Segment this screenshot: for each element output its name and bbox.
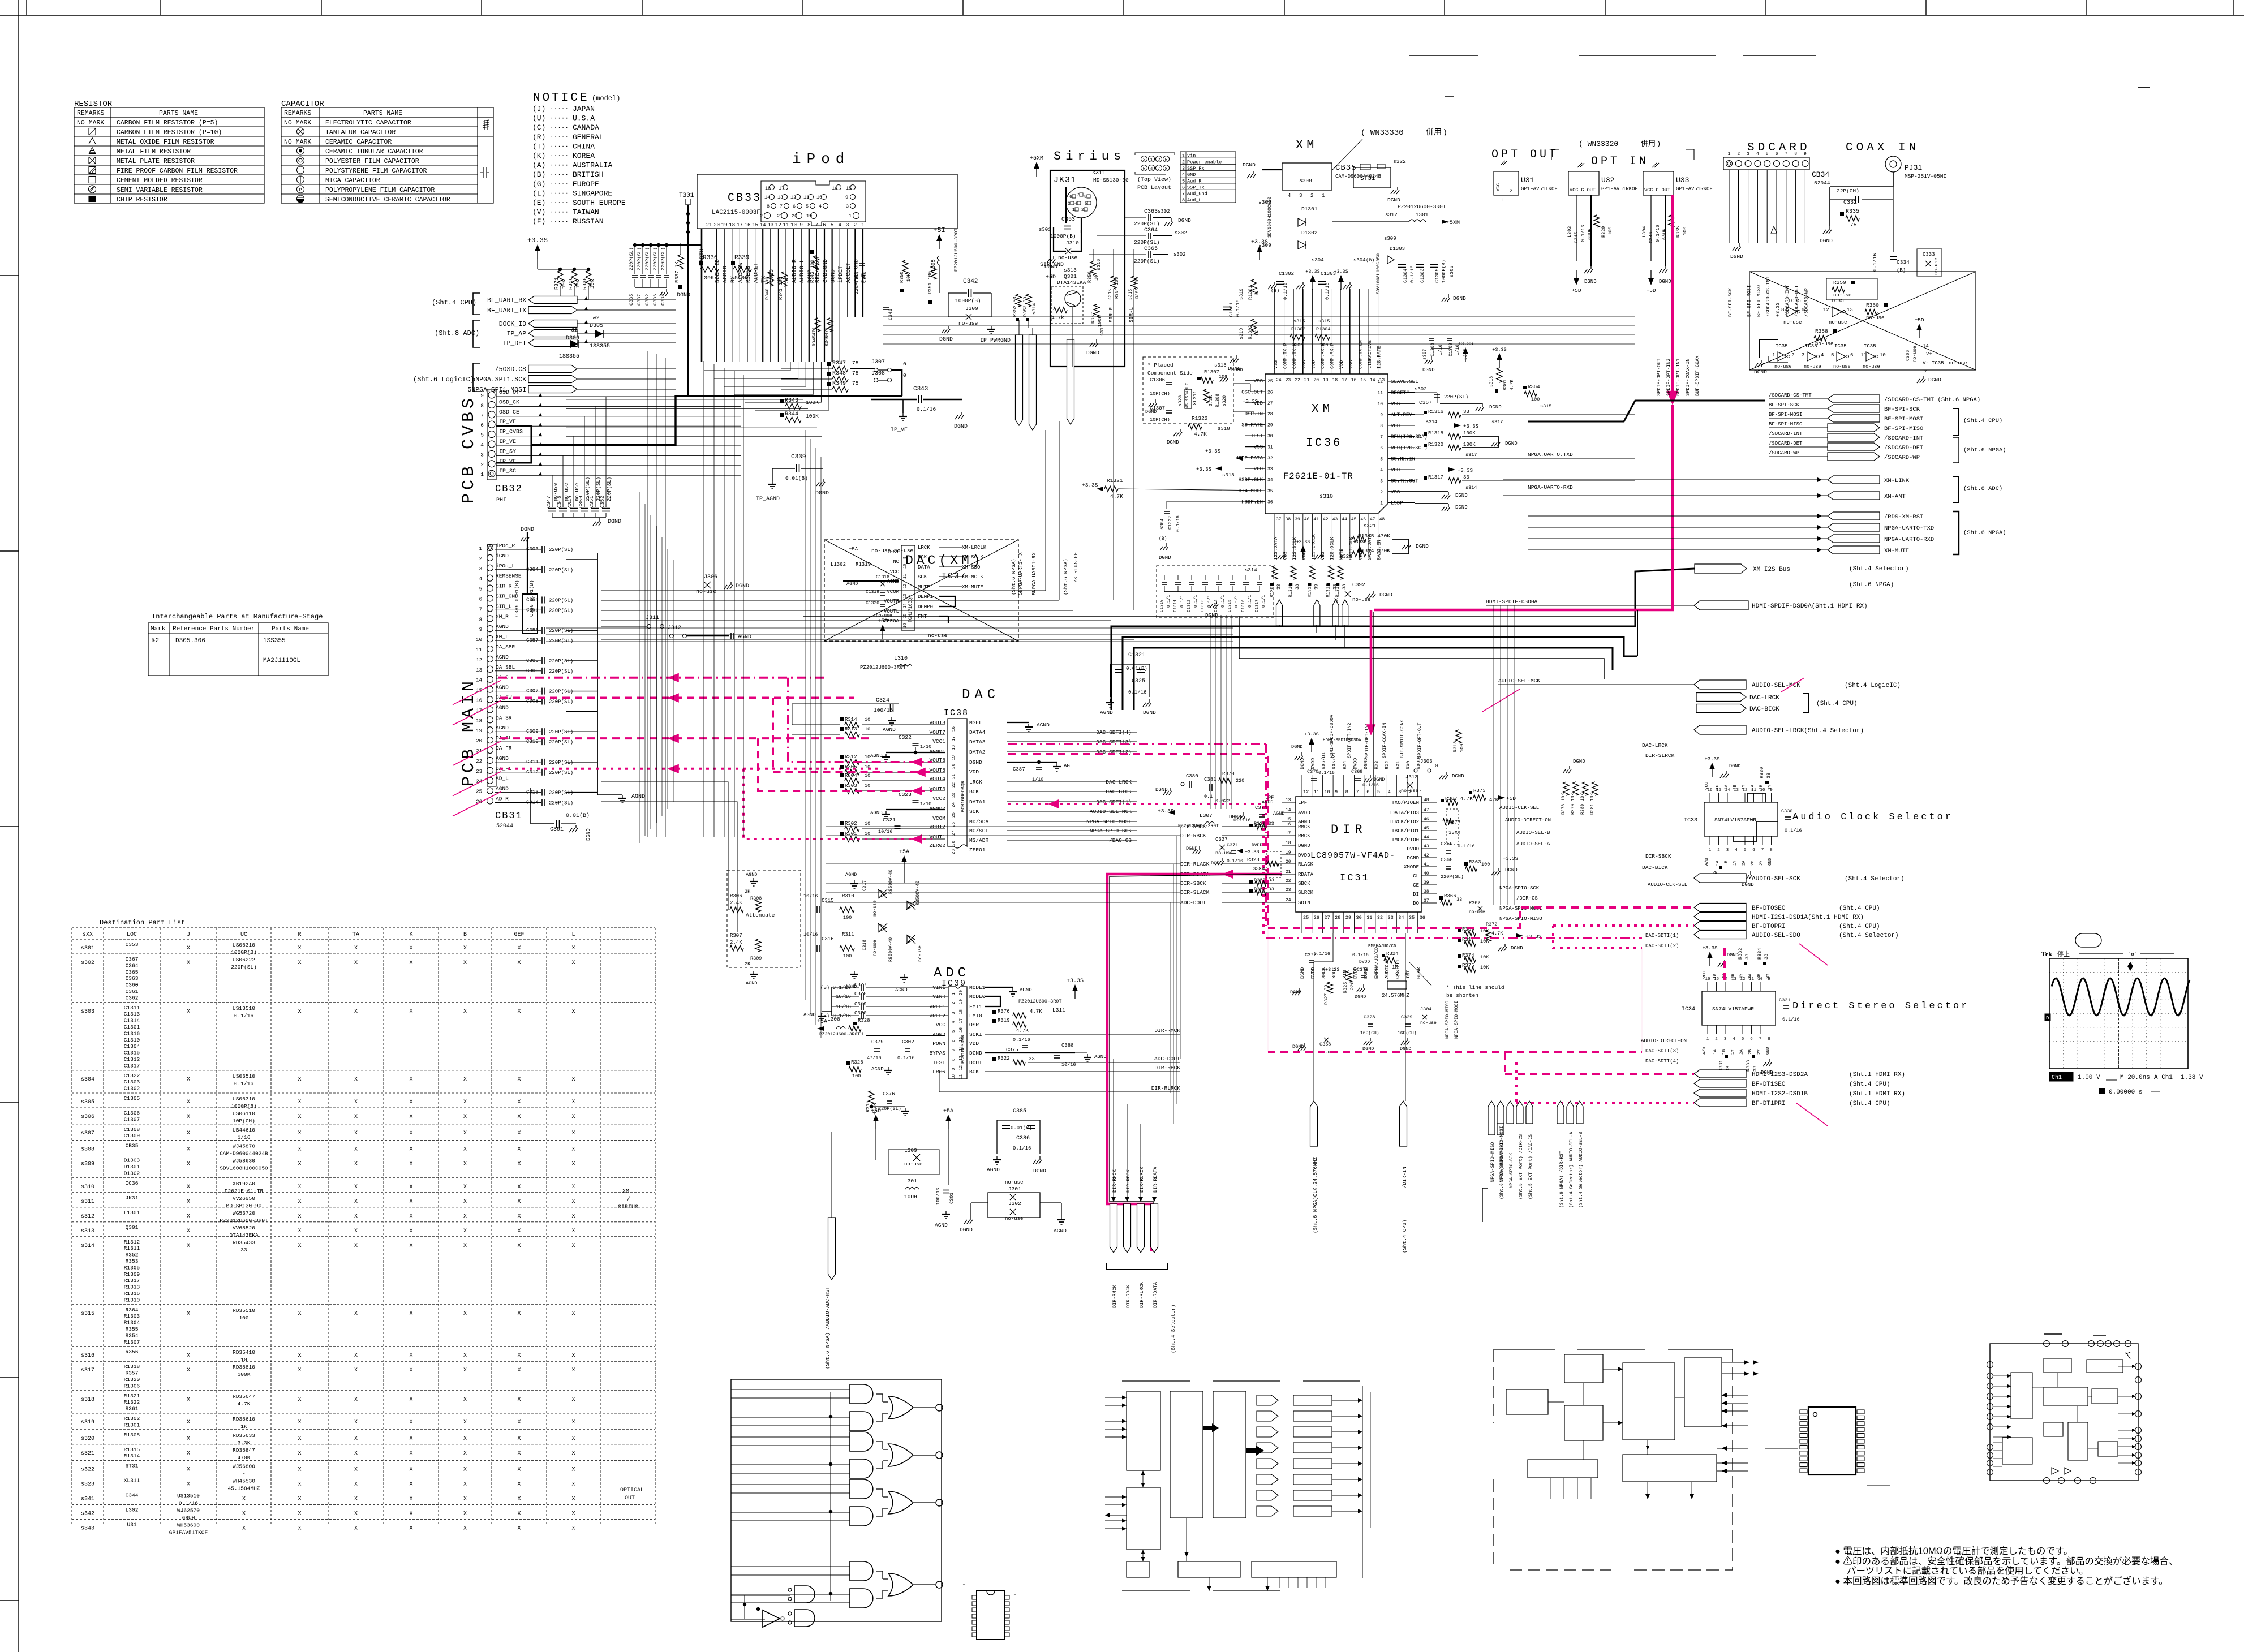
svg-text:16P(CH): 16P(CH) (1398, 1031, 1417, 1036)
svg-text:X: X (463, 1161, 467, 1168)
svg-text:X: X (463, 945, 467, 952)
highlight trace DA_SL dashed (500, 737, 869, 739)
jack PJ31 (1885, 156, 1901, 172)
svg-text:C334: C334 (1897, 259, 1910, 265)
magenta leader diagonals CB31 (453, 681, 501, 705)
svg-text:15: 15 (846, 186, 852, 191)
svg-text:(Sht.4 CPU): (Sht.4 CPU) (432, 299, 476, 307)
DEMP thick loop (939, 596, 955, 606)
svg-text:R340 100: R340 100 (764, 277, 770, 300)
svg-text:1G: 1G (1713, 973, 1718, 979)
svg-text:X: X (354, 1482, 358, 1488)
svg-text:CEMENT MOLDED RESISTOR: CEMENT MOLDED RESISTOR (117, 177, 203, 184)
svg-text:X: X (571, 1511, 575, 1517)
svg-text:.....: ..... (550, 123, 569, 130)
svg-text:75: 75 (852, 360, 859, 366)
svg-text:s308: s308 (1299, 178, 1312, 184)
svg-text:X: X (409, 1526, 412, 1532)
svg-text:DIR-RMCK: DIR-RMCK (1112, 1284, 1117, 1308)
ADC right wires (985, 1034, 1180, 1035)
svg-text:R1311: R1311 (124, 1245, 140, 1251)
svg-text:42: 42 (1323, 517, 1329, 522)
svg-text:R1315: R1315 (124, 1447, 140, 1453)
svg-text:X: X (187, 1467, 190, 1473)
svg-text:C1312: C1312 (1187, 599, 1192, 612)
svg-text:VCC: VCC (1496, 183, 1501, 191)
svg-text:46: 46 (1360, 517, 1366, 522)
R339 510K (731, 261, 735, 265)
svg-text:9: 9 (952, 1068, 956, 1070)
svg-text:AD_R: AD_R (496, 796, 509, 802)
svg-text:+3.3S: +3.3S (1325, 967, 1340, 973)
svg-text:F2621E-01-TR: F2621E-01-TR (225, 1188, 264, 1194)
title underlines top (1409, 55, 1478, 56)
svg-text:DGND: DGND (1167, 440, 1179, 445)
right chip small box F (2044, 1422, 2063, 1436)
svg-text:8: 8 (807, 222, 810, 228)
svg-text:no-use: no-use (1815, 341, 1833, 347)
svg-text:18: 18 (952, 745, 956, 750)
svg-text:.....: ..... (550, 142, 569, 149)
svg-text:X: X (298, 1419, 301, 1426)
svg-text:DGND: DGND (1374, 777, 1385, 782)
svg-text:no-use: no-use (1005, 1180, 1023, 1185)
svg-text:XL311: XL311 (1192, 390, 1198, 405)
svg-text:DGND: DGND (1355, 994, 1366, 1000)
svg-text:X: X (409, 1184, 412, 1190)
svg-text:11: 11 (903, 574, 908, 579)
svg-text:no-use: no-use (1949, 360, 1967, 366)
SSOP IC drawing (1808, 1407, 1856, 1475)
svg-text:D1302: D1302 (1301, 230, 1318, 236)
svg-text:24: 24 (1286, 898, 1291, 903)
svg-text:U33: U33 (1676, 176, 1689, 184)
svg-text:B: B (463, 932, 467, 938)
svg-text:(U): (U) (532, 114, 545, 123)
svg-text:(Sht.6 NPGA) NPGA-SPIO-MOSI: (Sht.6 NPGA) NPGA-SPIO-MOSI (1499, 1126, 1504, 1199)
svg-text:DAC-BICK: DAC-BICK (1749, 706, 1779, 713)
svg-text:SPDIF-OPT-OUT: SPDIF-OPT-OUT (1417, 722, 1422, 758)
svg-text:4.7K: 4.7K (238, 1401, 251, 1407)
svg-text:LPF: LPF (1298, 800, 1307, 806)
svg-text:11: 11 (959, 1074, 964, 1079)
connector ST31 (1353, 167, 1391, 188)
svg-text:DIR-RLACK: DIR-RLACK (1180, 861, 1210, 867)
svg-text:27: 27 (952, 831, 956, 836)
svg-text:s311: s311 (1092, 170, 1106, 177)
svg-text:DGND: DGND (815, 491, 829, 497)
connector CB33 pin field (761, 181, 866, 226)
svg-text:10/16: 10/16 (836, 994, 851, 1000)
svg-text:DGND: DGND (1292, 1044, 1304, 1049)
svg-text:R372: R372 (1486, 922, 1497, 927)
svg-text:VSS: VSS (1391, 401, 1400, 407)
svg-text:4.7K: 4.7K (1110, 493, 1123, 500)
svg-text:DAC: DAC (962, 687, 1000, 703)
svg-text:X: X (187, 1099, 190, 1105)
svg-text:AGND: AGND (496, 786, 509, 792)
svg-text:R1320: R1320 (1428, 442, 1443, 448)
svg-text:VDD: VDD (1254, 466, 1263, 472)
svg-text:X: X (298, 1353, 301, 1359)
svg-text:220P(SL): 220P(SL) (652, 247, 658, 270)
svg-text:SLAVE.SEL: SLAVE.SEL (1391, 379, 1418, 385)
svg-text:0.1/16: 0.1/16 (1782, 1017, 1800, 1022)
svg-text:-: - (242, 1471, 246, 1477)
svg-text:2K: 2K (745, 889, 751, 894)
svg-text:R358: R358 (1815, 328, 1828, 334)
svg-text:220P(SL): 220P(SL) (549, 638, 573, 644)
svg-text:AGND: AGND (496, 685, 509, 691)
svg-text:0.1/16: 0.1/16 (1580, 225, 1586, 242)
svg-text:s313: s313 (1064, 267, 1077, 273)
svg-text:R324: R324 (1386, 951, 1399, 957)
svg-text:HDMI-SPDIF-DSD0A: HDMI-SPDIF-DSD0A (1330, 715, 1335, 758)
svg-text:EMPHA/UO/CD: EMPHA/UO/CD (1368, 944, 1396, 949)
svg-text:X: X (571, 1161, 575, 1168)
svg-text:s342: s342 (81, 1511, 94, 1517)
svg-text:10UH: 10UH (904, 1194, 917, 1200)
svg-text:DGND: DGND (1290, 990, 1301, 995)
svg-text:0.01(B): 0.01(B) (1011, 1125, 1032, 1131)
svg-text:C367: C367 (126, 956, 139, 962)
svg-text:VDD: VDD (1301, 552, 1307, 560)
svg-text:s316: s316 (81, 1353, 94, 1359)
svg-text:8: 8 (1768, 1037, 1770, 1042)
svg-text:.....: ..... (550, 170, 569, 177)
svg-text:s304: s304 (1312, 257, 1324, 263)
svg-text:J303: J303 (1420, 759, 1433, 764)
svg-text:(Sht.4 Selector): (Sht.4 Selector) (1849, 566, 1909, 573)
svg-text:パーツリストに記載されている部品を使用してください。: パーツリストに記載されている部品を使用してください。 (1847, 1565, 2088, 1576)
svg-text:(V): (V) (532, 208, 545, 217)
svg-text:R371: R371 (554, 277, 560, 290)
svg-text:26: 26 (1314, 915, 1319, 920)
svg-text:IP_VE: IP_VE (891, 427, 908, 433)
svg-text:I2S.OCLK: I2S.OCLK (1330, 536, 1335, 560)
svg-text:220P(SL): 220P(SL) (549, 801, 573, 806)
svg-text:1/16: 1/16 (238, 1134, 251, 1141)
svg-text:C302: C302 (902, 1039, 914, 1045)
svg-text:10/16: 10/16 (1061, 1062, 1076, 1068)
svg-text:33X4: 33X4 (1448, 830, 1461, 836)
svg-text:16: 16 (476, 698, 482, 704)
svg-text:1: 1 (1706, 1037, 1709, 1042)
svg-text:NPGA-SPIO-MISO: NPGA-SPIO-MISO (1490, 1142, 1495, 1182)
svg-text:AGND: AGND (895, 987, 908, 993)
svg-text:14: 14 (760, 222, 766, 228)
svg-text:no-use: no-use (872, 940, 878, 956)
svg-text:R1303: R1303 (124, 1313, 140, 1319)
svg-text:VV65520: VV65520 (233, 1225, 255, 1231)
svg-text:29: 29 (1267, 423, 1273, 428)
svg-text:X: X (463, 1199, 467, 1205)
svg-text:GP1FAV51TKOF: GP1FAV51TKOF (1521, 186, 1558, 192)
svg-text:DAC-SDTI(1): DAC-SDTI(1) (1645, 933, 1679, 939)
svg-text:20: 20 (952, 763, 956, 769)
svg-text:220P(SL): 220P(SL) (1134, 239, 1160, 246)
svg-text:AGND: AGND (870, 810, 883, 816)
svg-text:1: 1 (1380, 501, 1383, 506)
svg-text:C1321: C1321 (1128, 652, 1145, 659)
svg-text:AGND: AGND (738, 634, 751, 640)
svg-text:13: 13 (903, 594, 908, 599)
svg-text:18: 18 (765, 186, 771, 191)
svg-text:R336: R336 (703, 255, 717, 261)
svg-text:X: X (354, 1436, 358, 1442)
svg-text:s319: s319 (1239, 289, 1244, 300)
svg-text:3: 3 (1726, 848, 1729, 853)
svg-text:2: 2 (760, 213, 763, 219)
svg-text:X: X (409, 1243, 412, 1249)
svg-text:AD_L: AD_L (496, 776, 509, 782)
svg-text:C340: C340 (862, 272, 867, 283)
svg-text:15: 15 (1286, 817, 1291, 822)
svg-text:6: 6 (823, 222, 826, 228)
right chip bottom-left box I (2002, 1438, 2032, 1464)
svg-text:DGND: DGND (1231, 367, 1243, 373)
svg-text:X: X (409, 1099, 412, 1105)
svg-text:C321: C321 (883, 817, 896, 823)
svg-text:JK31: JK31 (1054, 175, 1076, 185)
svg-text:SLRCK: SLRCK (1298, 890, 1314, 896)
svg-text:33: 33 (1752, 1066, 1758, 1072)
svg-text:RB500V-40: RB500V-40 (915, 881, 921, 905)
svg-text:X: X (517, 960, 521, 966)
wires iPod pointers to components (577, 299, 676, 300)
svg-text:AGND: AGND (871, 1066, 884, 1072)
svg-text:REMARKS: REMARKS (284, 110, 311, 117)
svg-text:+5A: +5A (849, 547, 858, 552)
svg-text:X: X (517, 1099, 521, 1105)
svg-text:PZ2012U600-3R0T: PZ2012U600-3R0T (1018, 999, 1062, 1004)
svg-text:DOCK_ID: DOCK_ID (499, 321, 526, 328)
svg-text:0: 0 (903, 361, 906, 367)
svg-text:C1314: C1314 (124, 1018, 140, 1024)
svg-text:X: X (517, 945, 521, 952)
svg-text:OSD_CK: OSD_CK (499, 399, 519, 406)
svg-text:33: 33 (1463, 475, 1469, 480)
svg-text:C368: C368 (1441, 857, 1453, 863)
ADC DOUT R322 (992, 1057, 996, 1061)
svg-text:+3.3S: +3.3S (1251, 239, 1268, 246)
svg-text:DGND: DGND (1143, 709, 1156, 716)
svg-text:C1306: C1306 (1150, 377, 1165, 383)
svg-text:47: 47 (1370, 517, 1375, 522)
svg-text:DGND: DGND (1363, 758, 1369, 769)
svg-text:X: X (517, 1184, 521, 1190)
DIR area risers (1637, 610, 1638, 656)
svg-text:R339: R339 (734, 255, 749, 261)
svg-text:IP_SY: IP_SY (499, 449, 516, 455)
svg-text:VCOM: VCOM (932, 815, 945, 821)
svg-text:10: 10 (865, 831, 870, 837)
svg-text:DIR-RLRCK: DIR-RLRCK (1139, 1281, 1145, 1308)
svg-text:16: 16 (745, 222, 751, 228)
svg-text:X: X (242, 1526, 246, 1532)
svg-text:C381: C381 (1204, 777, 1216, 782)
svg-text:C369: C369 (1351, 769, 1362, 775)
svg-text:AGND: AGND (1094, 1054, 1107, 1060)
svg-text:XM-SDO: XM-SDO (962, 565, 980, 570)
svg-text:.....: ..... (550, 199, 569, 205)
svg-text:s321: s321 (1340, 554, 1352, 560)
svg-text:100: 100 (1219, 374, 1227, 380)
svg-text:/SDCARD-INT: /SDCARD-INT (1769, 431, 1803, 437)
svg-text:VV26950: VV26950 (233, 1195, 255, 1202)
svg-text:DATA2: DATA2 (969, 749, 986, 755)
svg-text:DVDD: DVDD (1407, 846, 1419, 852)
svg-text:s319: s319 (1239, 328, 1244, 339)
svg-text:R311: R311 (842, 932, 854, 937)
svg-text:31: 31 (1366, 915, 1372, 920)
svg-text:PZ2012U600-3R0T: PZ2012U600-3R0T (953, 228, 959, 272)
svg-text:X: X (354, 1496, 358, 1503)
svg-text:X: X (354, 1214, 358, 1220)
svg-text:33: 33 (1764, 954, 1769, 960)
svg-text:220P(SL): 220P(SL) (1444, 394, 1468, 400)
svg-text:X: X (354, 1311, 358, 1317)
ADC DIR wires going up (1180, 827, 1181, 1059)
svg-text:DGND: DGND (1729, 763, 1740, 769)
svg-text:SIRIUS: SIRIUS (618, 1204, 638, 1211)
svg-text:( WN33330: ( WN33330 (1361, 128, 1404, 137)
svg-text:s302: s302 (1415, 386, 1427, 392)
svg-text:10: 10 (865, 764, 870, 770)
svg-text:JAPAN: JAPAN (573, 105, 595, 113)
svg-text:s312: s312 (81, 1214, 94, 1220)
svg-text:+3.3S: +3.3S (1702, 945, 1717, 951)
svg-text:RB500V-40: RB500V-40 (888, 870, 893, 894)
svg-text:DGND: DGND (1511, 945, 1523, 951)
svg-text:FMT: FMT (918, 614, 927, 619)
svg-text:BUF-SPDIF-COAX: BUF-SPDIF-COAX (1695, 356, 1700, 396)
svg-text:J309: J309 (965, 306, 978, 312)
VDD +3.3S arrow (1454, 423, 1461, 428)
svg-text:U.S.A: U.S.A (573, 114, 595, 123)
svg-text:DAC-SDTI(4): DAC-SDTI(4) (1096, 729, 1132, 735)
svg-text:C1306: C1306 (124, 1110, 140, 1116)
svg-text:J310: J310 (1066, 240, 1079, 246)
svg-text:2Y: 2Y (1760, 860, 1764, 866)
svg-text:VCC: VCC (1703, 971, 1707, 979)
svg-text:0.1/16: 0.1/16 (1314, 952, 1330, 957)
svg-text:BUF-SPDIF-COAX: BUF-SPDIF-COAX (1400, 720, 1405, 758)
svg-text:D1303: D1303 (1390, 246, 1405, 252)
svg-text:AUDIO-CLK-SEL: AUDIO-CLK-SEL (1648, 882, 1687, 888)
svg-text:17: 17 (952, 736, 956, 741)
svg-text:A Ch1: A Ch1 (2154, 1074, 2173, 1081)
svg-text:5: 5 (1742, 1037, 1744, 1042)
svg-text:X: X (571, 1199, 575, 1205)
svg-text:40: 40 (1304, 517, 1310, 522)
wires to DIR_R pointers (1113, 1059, 1114, 1197)
svg-text:+3.3S: +3.3S (1492, 347, 1507, 352)
svg-text:X: X (298, 1199, 301, 1205)
svg-text:X: X (571, 945, 575, 952)
svg-text:CERAMIC CAPACITOR: CERAMIC CAPACITOR (325, 139, 392, 146)
svg-text:DGND: DGND (1416, 543, 1429, 549)
svg-text:1: 1 (479, 546, 482, 552)
svg-text:C317: C317 (862, 880, 867, 891)
svg-text:X: X (463, 1367, 467, 1374)
svg-text:D1302: D1302 (124, 1170, 140, 1176)
R335 75 (1840, 212, 1844, 216)
svg-text:METAL PLATE RESISTOR: METAL PLATE RESISTOR (117, 158, 195, 165)
svg-text:C1304: C1304 (1403, 268, 1408, 283)
svg-text:OPTICAL: OPTICAL (620, 1487, 644, 1494)
XM I2S nested bus ring 1 (1111, 569, 1695, 710)
svg-text:X: X (187, 1114, 190, 1120)
svg-text:SIR-R: SIR-R (1108, 307, 1114, 322)
svg-text:75: 75 (1850, 222, 1857, 228)
svg-text:s321: s321 (1364, 523, 1376, 529)
svg-text:AUDIO-DIRECT-ON: AUDIO-DIRECT-ON (1641, 1038, 1687, 1044)
svg-text:NC: NC (893, 559, 899, 565)
svg-text:27: 27 (1267, 401, 1273, 406)
svg-text:220P(SL): 220P(SL) (637, 247, 642, 270)
svg-text:20: 20 (959, 990, 964, 995)
svg-text:0.1/16: 0.1/16 (1176, 515, 1181, 532)
svg-text:X: X (187, 1199, 190, 1205)
svg-text:X: X (463, 1243, 467, 1249)
svg-text:GENERAL: GENERAL (573, 133, 604, 141)
right chip top box C (2087, 1360, 2123, 1373)
svg-text:Aud_L: Aud_L (1187, 197, 1202, 203)
svg-text:C349: C349 (568, 496, 573, 508)
svg-text:C1318: C1318 (876, 575, 889, 580)
svg-text:L307: L307 (1200, 812, 1213, 819)
right chip mid box D (2044, 1387, 2088, 1406)
svg-text:+5A: +5A (817, 1019, 827, 1025)
svg-text:0.1/1: 0.1/1 (1235, 595, 1239, 608)
svg-text:MSEL: MSEL (969, 720, 982, 726)
svg-text:X: X (571, 1009, 575, 1015)
svg-text:s301: s301 (1039, 227, 1051, 233)
svg-text:L1301: L1301 (1412, 212, 1429, 218)
AGND symbol CB31 (597, 794, 622, 795)
svg-text:0.1/16: 0.1/16 (1352, 953, 1369, 958)
VSS DGND stubs (1448, 492, 1449, 495)
HDMI_I2S3 pointer group (1694, 1070, 1746, 1078)
svg-text:SCKI: SCKI (969, 1031, 982, 1038)
svg-text:220P(SL): 220P(SL) (549, 739, 573, 745)
block input arrows (1105, 1397, 1127, 1398)
svg-text:X: X (298, 1367, 301, 1374)
svg-text:SDIN: SDIN (1298, 900, 1310, 906)
svg-text:39K: 39K (704, 276, 714, 282)
svg-text:1: 1 (1728, 152, 1731, 157)
svg-text:X: X (298, 1397, 301, 1403)
svg-text:1Y: 1Y (1733, 860, 1738, 866)
BF_DT0 pointer group (1694, 904, 1746, 912)
svg-text:AGND: AGND (1100, 709, 1113, 716)
svg-text:R320: R320 (1601, 226, 1606, 238)
svg-text:C348: C348 (557, 496, 562, 508)
svg-text:J301: J301 (1008, 1186, 1021, 1192)
svg-text:C1315: C1315 (1228, 599, 1232, 612)
svg-text:75: 75 (852, 380, 859, 386)
svg-text:DGND: DGND (1298, 843, 1310, 849)
svg-text:s343: s343 (81, 1526, 94, 1532)
svg-text:+5D: +5D (1571, 287, 1581, 294)
svg-text:R364: R364 (1528, 384, 1540, 390)
svg-text:0.1/16: 0.1/16 (1785, 828, 1802, 833)
AUDIO_ADC_RST pointer (828, 1218, 836, 1280)
block bottom small box (1127, 1561, 1149, 1577)
svg-text:6: 6 (1850, 352, 1853, 358)
svg-text:X: X (354, 1451, 358, 1457)
